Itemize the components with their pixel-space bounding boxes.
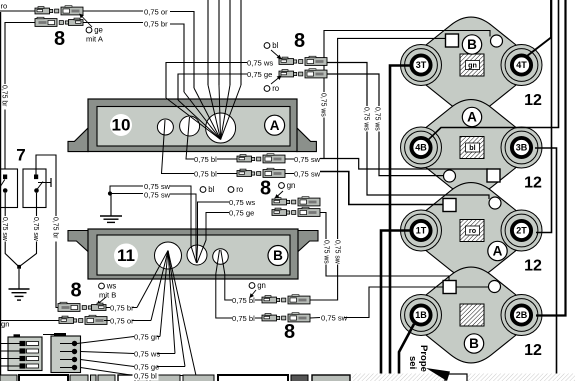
svg-text:1T: 1T [416,226,427,236]
svg-text:0,75 bl: 0,75 bl [194,155,217,164]
svg-text:gn: gn [468,61,477,70]
label 0,75 sw rotated sw2 [32,216,40,242]
square marker of loudspeaker 4 [443,281,456,294]
crossover box of loudspeaker 2 [460,137,484,159]
switch box 1 [0,169,18,208]
wire: to loudspeaker 1 circle marker [324,31,490,159]
wire 0,75 ge into unit 10 [178,74,247,100]
svg-text:2T: 2T [516,226,527,236]
wire thick: 1T to bottom edge [381,231,410,382]
label O ro top [264,84,280,93]
loudspeaker housing 4 (1B/2B) [401,267,543,363]
svg-text:8: 8 [294,30,305,52]
label O gn mid [279,181,296,190]
svg-text:12: 12 [524,342,542,359]
svg-text:ws: ws [106,282,117,291]
svg-text:0,75 bl: 0,75 bl [232,314,255,323]
svg-text:3T: 3T [416,60,427,70]
svg-text:0,75 ge: 0,75 ge [247,70,272,79]
svg-text:sei: sei [407,356,418,369]
letter A of loudspeaker 2 [462,107,481,126]
svg-text:mit B: mit B [99,291,116,300]
label 0,75 ws rotated at x324 [320,92,328,118]
svg-text:0,75 br: 0,75 br [1,85,8,107]
label O ro mid [228,185,244,194]
svg-text:1B: 1B [415,310,427,320]
wire 0,75 br from top connector [170,24,184,92]
svg-text:bl: bl [469,143,475,152]
svg-text:0,75 br: 0,75 br [52,217,59,239]
svg-text:0,75 ge: 0,75 ge [134,363,159,372]
wires into unit 11 medium circle [170,186,197,263]
wire to ground 1 [18,269,20,289]
connector pair bl row2 [237,168,285,177]
wire 0,75 sw 1 [110,186,143,194]
connector pair ws top [279,56,327,65]
svg-text:0,75 bl: 0,75 bl [194,170,217,179]
unit 11 right foot [298,231,318,252]
label O ws [99,282,117,291]
arrow O ws mit B [96,297,106,305]
wire gn from left edge [0,320,59,322]
unit 11 left foot [68,231,88,252]
wire: 2B to top edge [536,0,566,316]
connector pair ge row 11 [272,207,320,216]
svg-text:0,75 gn: 0,75 gn [134,333,159,342]
wire ro at top left [0,10,35,12]
bottom component strip [0,374,575,383]
connector pair bl lower row1 [262,295,310,304]
svg-text:0,75 ws: 0,75 ws [374,107,381,131]
circle marker of loudspeaker 4 [489,281,501,293]
svg-text:8: 8 [260,177,271,199]
svg-text:mit A: mit A [86,35,104,44]
unit 10 body [88,99,297,152]
wire: to loudspeaker 1 square marker (from bl/sw row) [310,38,445,300]
svg-text:ro: ro [272,84,280,93]
letter A of loudspeaker 3 [488,241,507,260]
wire unit 10 medium circle to 0,75 bl row1 [186,117,194,159]
wire to ground [110,194,112,216]
wire: to loudspeaker 4 square marker (from ws/ge row) [318,213,449,284]
square marker of loudspeaker 1 [446,34,459,47]
wire: to loudspeaker 4 circle marker (from sw row) [344,287,489,318]
svg-text:0,75 sw: 0,75 sw [334,240,341,264]
wire loop from switch 2 to 0,75 br column [36,155,58,308]
label 0,75 sw rotated sw1 [1,216,9,242]
wires fanning out of unit 11 multi-pin circle [137,251,168,308]
arrow O gn lower [249,290,256,298]
label O gn lower [249,281,266,290]
unit 10 label circle [110,114,132,136]
svg-text:0,75 ws: 0,75 ws [229,198,255,207]
svg-text:0,75 br: 0,75 br [110,304,134,313]
svg-text:0,75 ws: 0,75 ws [323,240,330,264]
crossover box of loudspeaker 3 [460,220,484,242]
svg-text:A: A [493,243,503,258]
svg-text:0,75 br: 0,75 br [144,20,168,29]
unit 10 left foot [68,128,88,152]
svg-text:0,75 ws: 0,75 ws [363,107,370,131]
wire 0,75 sw 2 [110,193,143,195]
svg-text:3B: 3B [516,143,528,153]
unit 11 letter B circle [268,246,288,266]
svg-text:Prope: Prope [418,345,429,372]
svg-text:0,75 or: 0,75 or [110,317,134,326]
svg-text:7: 7 [16,145,25,164]
connector pair bl lower row2 [262,313,310,322]
black arrow bottom right [426,368,450,381]
crossover box of loudspeaker 1 [460,54,484,76]
switch box 2 [23,169,51,208]
wires block 2 to labels [77,337,134,344]
terminals of loudspeaker 2 [411,138,430,157]
connector block 2 [43,333,81,373]
svg-text:12: 12 [524,175,542,192]
wire stubs fan to labels [132,307,137,309]
wires from switches to ground junction [5,193,19,267]
arrow O bl [271,50,282,59]
ground left [9,289,30,300]
label O ge [86,26,103,35]
label O bl mid [200,185,214,194]
svg-text:ro: ro [1,2,8,11]
svg-text:ro: ro [236,185,244,194]
svg-text:8: 8 [284,321,295,343]
square marker of loudspeaker 2 [487,169,500,182]
svg-text:12: 12 [524,92,542,109]
connector pair or bottom [59,315,107,324]
label O bl top [264,41,278,50]
svg-text:gn: gn [287,181,296,190]
wire: 4B to top edge [427,0,559,141]
unit 11 connector circles [155,242,182,269]
label 0,75 br rotated left edge [1,84,9,110]
svg-text:bl: bl [208,185,214,194]
circle marker of loudspeaker 2 [444,170,456,182]
label 0,75 ws rotated at x327 [323,239,331,265]
terminals of loudspeaker 3 [411,221,430,240]
svg-text:B: B [273,248,283,263]
arrow to connector [79,14,92,28]
svg-text:8: 8 [70,279,81,301]
svg-text:B: B [467,37,477,52]
wires from unit 11 small circle to 0,75 bl rows [221,250,232,300]
svg-text:0,75 sw: 0,75 sw [294,170,321,179]
label 0,75 bl bottom redraw [133,371,159,381]
svg-text:bl: bl [272,41,278,50]
svg-text:gn: gn [1,320,9,329]
svg-text:2B: 2B [516,310,528,320]
arrow O gn mid [275,191,284,199]
connector block 1 [0,334,42,370]
wire: vertical bus from top to 4T [527,0,551,56]
left border [0,12,2,381]
svg-text:0,75 bl: 0,75 bl [134,372,157,381]
svg-text:0,75 ws: 0,75 ws [320,93,327,117]
svg-text:4B: 4B [415,143,427,153]
svg-text:0,75 or: 0,75 or [144,8,168,17]
terminals of loudspeaker 4 [411,305,430,324]
svg-text:0,75 sw: 0,75 sw [321,314,348,323]
svg-text:0,75 sw: 0,75 sw [144,191,171,200]
circle marker of loudspeaker 1 [491,35,503,47]
crossover box of loudspeaker 4 [460,304,484,326]
svg-text:ge: ge [94,26,103,35]
letter B of loudspeaker 1 [462,35,481,54]
svg-text:0,75 ge: 0,75 ge [229,209,254,218]
label 0,75 ws rotated at x378 [374,106,382,132]
connector pair bl row1 [237,154,285,163]
label 0,75 br rotated [52,216,60,242]
svg-text:8: 8 [54,28,65,50]
wires fanning into unit 10 multi-pin circle [194,88,221,140]
wire to connector row 2 / vertical 0,75 br [5,23,35,170]
loudspeaker housing 3 (1T/2T) [401,183,543,279]
square marker of loudspeaker 3 [443,199,456,212]
letter B of loudspeaker 4 [464,334,483,353]
wire: 3B to bottom edge [535,148,557,381]
wire: to loudspeaker 2 circle marker (from sw row2) [320,172,444,205]
wire 0,75 ws into unit 10 [166,63,247,99]
connector pair br bottom [58,302,106,311]
svg-text:ro: ro [469,226,477,235]
terminals of loudspeaker 1 [411,55,430,74]
svg-text:A: A [467,109,477,124]
wire thick: 1B to bottom edge [399,324,414,381]
wire: to loudspeaker 2 square marker (from sw row1) [320,159,488,174]
wire thick: 3T to bottom edge [390,66,410,382]
unit 11 label circle [114,244,138,268]
junction dot sw wires [108,191,112,195]
label 0,75 ws rotated at x367 [363,106,371,132]
svg-text:gn: gn [257,281,266,290]
connector pair ws row 11 [272,197,320,206]
svg-text:B: B [469,336,479,351]
ground above unit 11 [100,216,122,222]
svg-text:0,75 sw: 0,75 sw [1,217,8,241]
svg-text:0,75 sw: 0,75 sw [32,217,39,241]
svg-text:10: 10 [112,115,131,134]
unit 10 letter A circle [265,115,285,135]
svg-text:4T: 4T [516,60,527,70]
unit 11 body [88,229,298,279]
loudspeaker housing 2 (4B/3B) [401,100,543,196]
connector pair or-row [35,6,83,15]
connector pair br-row [35,17,83,26]
arrow O ro [271,75,282,84]
svg-text:12: 12 [524,258,542,275]
wire: to loudspeaker 3 square marker (from ws row) [325,63,489,200]
svg-text:0,75 bl: 0,75 bl [232,296,255,305]
wire: to loudspeaker 3 circle marker (from ge row) [325,74,444,176]
wire 0,75 or from top connector [170,12,194,89]
wire unit 10 small circle to 0,75 bl row2 [162,120,195,174]
svg-text:0,75 ws: 0,75 ws [134,350,160,359]
unit 10 connector circles [157,119,173,135]
unit 10 right foot [297,128,317,152]
svg-text:0,75 ws: 0,75 ws [247,59,273,68]
connector pair ge top [279,69,327,78]
loudspeaker housing 1 (3T/4T) [401,17,543,113]
wire: 2T to top edge [536,0,552,233]
svg-text:0,75 sw: 0,75 sw [294,155,321,164]
svg-text:A: A [270,118,280,133]
svg-text:11: 11 [117,246,135,265]
label 0,75 sw rotated at x338 [334,239,342,265]
circle marker of loudspeaker 3 [489,197,501,209]
wires from top edge into unit 10 [207,0,209,85]
